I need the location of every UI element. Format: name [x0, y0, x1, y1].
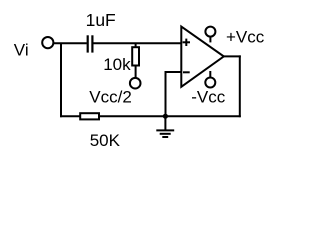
wire right vertical — [239, 55, 241, 117]
svg-text:Vcc/2: Vcc/2 — [89, 87, 132, 106]
terminal +Vcc — [205, 27, 215, 37]
wire op-amp output — [224, 55, 241, 57]
terminal Vcc/2 — [130, 78, 141, 89]
svg-text:Vi: Vi — [14, 41, 29, 60]
wire bottom left segment — [60, 115, 80, 117]
resistor R2 50K — [80, 113, 99, 119]
svg-text:1uF: 1uF — [86, 10, 116, 30]
svg-text:-Vcc: -Vcc — [191, 88, 226, 107]
capacitor C1 plates — [87, 35, 89, 52]
op-amp plus input sign — [183, 41, 190, 43]
wire bottom right segment — [99, 115, 241, 117]
terminal Vi — [42, 37, 53, 48]
svg-text:10k: 10k — [103, 55, 131, 74]
wire left vertical drop — [60, 43, 62, 117]
op-amp minus input sign — [183, 71, 190, 73]
resistor R1 10k — [135, 43, 137, 47]
svg-text:50K: 50K — [90, 131, 121, 150]
junction dot — [163, 114, 168, 119]
svg-text:+Vcc: +Vcc — [226, 28, 265, 47]
wire Vi to capacitor — [54, 42, 87, 44]
ground bar 3 — [162, 136, 168, 138]
wire feedback horizontal to minus input — [166, 71, 182, 73]
ground bar 2 — [160, 133, 171, 135]
op-amp U1 triangle — [181, 27, 224, 87]
ground stem — [164, 116, 166, 130]
ground bar 1 — [156, 129, 174, 131]
terminal -Vcc — [205, 78, 215, 88]
wire capacitor to op-amp + input — [94, 42, 182, 44]
wire feedback vertical — [165, 71, 167, 116]
